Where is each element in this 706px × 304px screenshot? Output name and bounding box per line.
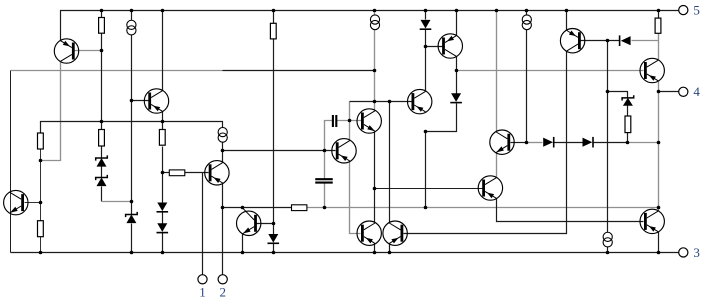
diode D1 — [157, 203, 169, 212]
wire: Q4 base node through D3 to bottom bus — [273, 224, 275, 235]
wire: bias row y=121 from R3 corner to current source I4 corner — [41, 122, 223, 133]
terminal pin 4 — [679, 87, 688, 96]
junction: node (526.8,142.2) — [525, 141, 529, 145]
wire: Q12 base wire — [511, 142, 527, 144]
wire: Q7 emitter node right and up through D5 — [426, 104, 457, 132]
zener diode DZ1 — [96, 155, 108, 166]
svg-text:4: 4 — [693, 84, 700, 99]
wire: P2 base right and up to Q11 collector — [404, 52, 567, 234]
junction: top bus x=375 — [373, 9, 377, 13]
capacitor C1 — [333, 115, 336, 127]
wire: P1 emitter to bottom bus — [374, 244, 376, 253]
junction: node (40.4,161) — [39, 159, 43, 163]
transistor QL (far left) — [4, 190, 28, 214]
diode D7 — [583, 137, 594, 148]
wire: rail end to Q13 collector — [658, 208, 660, 212]
diode D4 — [420, 20, 432, 29]
diode D3 — [268, 234, 280, 243]
wire: rail y=207.7 right of RH2 — [307, 207, 659, 209]
wire: left horizontal rail y=71 dark segment — [223, 70, 375, 72]
transistor Q7 — [408, 89, 432, 113]
current source I1 — [127, 20, 136, 35]
junction: node (425.5,131.4) — [424, 130, 428, 134]
wire: zener branch from x=607.7 — [608, 92, 628, 98]
junction: bottom bus x=273.3 — [272, 251, 276, 255]
junction: node (101.5,51) — [100, 49, 104, 53]
wire: R6 bottom to bottom bus — [40, 237, 42, 253]
junction: node (162.3,172.8) — [161, 171, 165, 175]
wire: DZ1 to DZ2 — [101, 167, 103, 178]
resistor R8 — [625, 116, 631, 133]
wire: Q8 base wire — [426, 46, 443, 48]
junction: top bus x=162.3 — [161, 9, 165, 13]
junction: node (627.9,142.2) — [626, 141, 630, 145]
wire: rail y=101.6 to Q7 base — [350, 101, 412, 103]
resistor R5 — [159, 130, 165, 146]
transistor Q5 — [332, 139, 356, 163]
wire: pin4 node down through diode row node to rail end — [658, 92, 660, 208]
wire: R2 bottom down to Q4 base node — [273, 39, 275, 224]
junction: node (222.7,207.7) — [221, 206, 225, 210]
wire: R2 top to bus — [273, 11, 275, 24]
wire: R8 node to x=658 column — [628, 142, 659, 144]
wire: row y=188 to Q14 base — [375, 188, 483, 190]
transistor P2 — [383, 221, 407, 245]
transistor Q3 — [205, 161, 229, 185]
wire: Q3 emitter to node y=207.7 — [222, 183, 224, 208]
junction: node (658,207.7) — [657, 206, 661, 210]
terminal pin 3 — [679, 248, 688, 257]
wire: left horizontal rail y=71 grey segment — [11, 70, 223, 72]
wire: DZ3 to bottom bus — [131, 224, 133, 253]
wire: D6 to D7 — [554, 142, 583, 144]
wire: bus to current source I2 — [374, 11, 376, 15]
wire: QL emitter stub — [10, 213, 12, 253]
wire: RH1 left node to RH1 — [163, 172, 170, 174]
svg-text:2: 2 — [219, 285, 226, 300]
wire: RH1 to Q3 base — [185, 172, 209, 174]
wire: bus to current source I1 — [131, 11, 133, 21]
diode D2 — [157, 223, 169, 232]
wire: D2 to bottom bus — [162, 233, 164, 253]
current source I4 — [218, 128, 227, 143]
wire: P2 collector up to rail y=101.6 — [389, 102, 391, 223]
junction: bottom bus x=607.7 — [606, 251, 610, 255]
diode D5 — [450, 93, 462, 102]
wire: Q1 collector down and left to R3 node — [41, 62, 61, 161]
wire: QL base wire — [25, 202, 41, 204]
wire: Q14 emitter down and right to Q13 base — [497, 199, 644, 222]
junction: node (324,150.8) — [323, 149, 327, 153]
wire: Q6 emitter down to P1 collector — [374, 132, 376, 223]
transistor Q6 — [357, 109, 381, 133]
transistor Q9 (output PNP) — [640, 58, 664, 82]
wire: C1 left plate to node x=324 — [325, 121, 333, 151]
label pin 1 — [199, 285, 206, 300]
wire: C2 bottom plate to rail y=207.7 — [324, 183, 326, 208]
wire: Q11 emitter to bus — [566, 11, 568, 31]
wire: rail y=207.7 left of RH2 — [223, 207, 292, 209]
junction: node (375,188) — [373, 187, 377, 191]
junction: bottom bus x=658 — [657, 251, 661, 255]
wire: R8 to diode row node — [627, 133, 629, 143]
junction: node (131.4,101) — [130, 99, 134, 103]
junction: bottom bus x=375 — [373, 251, 377, 255]
wire: bus to current source I3 — [526, 11, 528, 15]
wire: Q5 emitter down to P1 base — [350, 161, 361, 234]
junction: node (101.5,121.3) — [100, 120, 104, 124]
junction: node (658,91.8) — [657, 90, 661, 94]
junction: bottom bus x=162.3 — [161, 251, 165, 255]
current source I2 — [370, 15, 379, 30]
wire: pin 2 drop — [222, 208, 224, 275]
wire: bus to R7 — [658, 11, 660, 19]
wire: D8 to x=658 column — [632, 40, 659, 42]
terminal pin 5 — [679, 6, 688, 15]
wire: Q8 collector to rail node — [456, 57, 458, 71]
junction: top bus x=131.4 — [130, 9, 134, 13]
wire: Q11 base branch down to current source I5 — [607, 41, 609, 233]
wire: top supply bus with Q1 emitter drop — [61, 11, 679, 41]
wire: Q11 base to D8 — [581, 40, 620, 42]
resistor R4 — [99, 130, 105, 147]
wire: D4 through Q8 base node to Q7 collector — [425, 30, 427, 92]
resistor R3 — [38, 133, 44, 149]
diode D6 — [543, 137, 554, 148]
wire: Q9 emitter to pin4 node — [658, 81, 660, 92]
wire: Q5 collector up to rail corner — [349, 102, 351, 141]
wire: R1 top to bus — [101, 11, 103, 18]
svg-text:3: 3 — [693, 245, 700, 260]
junction: top bus x=101.5 — [100, 9, 104, 13]
resistor R7 — [655, 18, 661, 33]
wire: Q12 base node to D6 — [527, 142, 543, 144]
current source I5 — [603, 232, 612, 247]
wire: R1 bottom through Q1 base node to bias row — [101, 34, 103, 130]
junction: top bus x=658 — [657, 9, 661, 13]
wire: bus to D4 — [425, 11, 427, 20]
zener diode DZ2 — [96, 175, 108, 186]
label pin 3 — [693, 245, 700, 260]
junction: bottom bus x=242.9 — [241, 251, 245, 255]
junction: top bus x=526.8 — [525, 9, 529, 13]
junction: top bus x=566.8 — [565, 9, 569, 13]
wire: C1 right plate to Q6 base — [337, 120, 362, 122]
wire: pin 4 lead — [659, 91, 679, 93]
wire: I5 to bottom bus — [607, 247, 609, 253]
wire: Q12 emitter to Q14 collector — [496, 153, 498, 178]
junction: top bus x=456.1 — [455, 9, 459, 13]
wire: Q4 base wire from x=273.3 column — [257, 223, 274, 225]
wire: D3 to bottom bus — [273, 243, 275, 253]
wire: I2 down to Q6 collector — [374, 30, 376, 111]
wire: left vertical rail x=10 — [10, 71, 12, 253]
wire: bottom bus (ground rail) — [11, 252, 679, 254]
terminal pin 1 — [198, 275, 207, 284]
wire: R7 to Q9 collector — [658, 34, 660, 61]
junction: top bus x=425.5 — [424, 9, 428, 13]
transistor Q14 — [478, 176, 502, 200]
transistor P1 — [357, 221, 381, 245]
junction: node (242.9,207.7) — [241, 206, 245, 210]
capacitor C2 — [315, 179, 333, 182]
wire: R4 bottom to zener DZ1 — [101, 147, 103, 159]
junction: node (324,207.7) — [323, 206, 327, 210]
wire: I3 down to Q12 base node — [526, 30, 528, 143]
svg-text:5: 5 — [693, 3, 700, 18]
label pin 5 — [693, 3, 700, 18]
wire: node x=324 down to C2 top plate — [324, 151, 326, 180]
transistor Q8 — [438, 34, 462, 58]
junction: bottom bus x=40.4 — [39, 251, 43, 255]
junction: node (375,71) — [373, 69, 377, 73]
wire: Q1 base to R1 node — [75, 50, 102, 52]
wire: Q4 emitter to bottom bus — [242, 234, 244, 253]
junction: top bus x=273.3 — [272, 9, 276, 13]
junction: node (607.7,40.7) — [606, 39, 610, 43]
wire: DZ4 to R8 — [627, 106, 629, 117]
wire: link to x=131 line — [102, 201, 132, 203]
junction: node (162.3,121.3) — [161, 120, 165, 124]
wire: Q2 emitter to R5 — [162, 112, 164, 130]
wire: Q2 collector to bus — [162, 11, 164, 91]
junction: node (425.5,207.7) — [424, 206, 428, 210]
wire: Q8 emitter to bus — [456, 11, 458, 36]
wire: D7 to R8 node — [594, 142, 628, 144]
zener diode DZ3 — [126, 212, 138, 223]
transistor Q2 — [144, 89, 168, 113]
junction: node (131.4,201.9) — [130, 200, 134, 204]
zener diode DZ4 — [622, 95, 634, 105]
wire: Q2 base wire — [132, 100, 149, 102]
resistor R2 — [270, 23, 276, 39]
transistor Q4 — [237, 208, 261, 235]
wire: I1 down through Q2 base node to zener DZ3 — [131, 35, 133, 215]
junction: node (40.4,202.6) — [39, 201, 43, 205]
wire: Q13 emitter to bottom bus — [658, 232, 660, 253]
label pin 4 — [693, 84, 700, 99]
wire: Q7 emitter down to rail y=207.7 — [425, 132, 427, 208]
wire: pin 1 drop — [202, 173, 204, 275]
transistor Q12 — [490, 130, 514, 154]
transistor Q1 (top left PNP) — [54, 39, 78, 63]
junction: node (389.3,101.6) — [388, 100, 392, 104]
transistor Q13 (output bottom right) — [640, 209, 664, 233]
current source I3 — [522, 15, 531, 30]
wire: bus down to Q12 collector — [496, 11, 498, 132]
junction: node (456.1,70.9) — [455, 69, 459, 73]
junction: top bus x=496.2 — [495, 9, 499, 13]
wire: D1 to D2 — [162, 212, 164, 224]
junction: node (658,142.2) — [657, 141, 661, 145]
junction: node (349.8,121) — [348, 119, 352, 123]
transistor Q11 (PNP top right) — [560, 29, 584, 53]
junction: node (222.7,150.8) — [221, 149, 225, 153]
wire: node row y=150.8 to Q5 base — [223, 150, 336, 152]
label pin 2 — [219, 285, 226, 300]
wire: R3 bottom through QL base node to R6 — [40, 149, 42, 221]
junction: node (425.5,46) — [424, 45, 428, 49]
wire: R5 bottom to RH1 node and diodes D1 D2 — [162, 147, 164, 203]
wire: Q3 collector node to Q3 — [222, 151, 224, 163]
wire: P2 emitter to bottom bus — [389, 244, 391, 253]
junction: node (375,101.6) — [373, 100, 377, 104]
diode D8 — [620, 35, 631, 46]
wire: D5 top to rail node — [456, 71, 458, 94]
wire: DZ2 to link corner — [101, 187, 103, 202]
wire: I4 bottom to Q3 collector node — [222, 143, 224, 151]
wire: right horizontal rail y=70.9 — [457, 70, 644, 72]
resistor RH2 — [292, 205, 307, 211]
resistor RH1 — [169, 170, 185, 176]
junction: bottom bus x=389.3 — [388, 251, 392, 255]
terminal pin 2 — [218, 275, 227, 284]
junction: node (607.7,91.8) — [606, 90, 610, 94]
svg-text:1: 1 — [199, 285, 206, 300]
junction: node (273.3,223.3) — [272, 222, 276, 226]
wire: QL collector stub — [10, 71, 12, 193]
resistor R1 — [99, 18, 105, 34]
resistor R6 — [38, 221, 44, 237]
junction: bottom bus x=131.4 — [130, 251, 134, 255]
